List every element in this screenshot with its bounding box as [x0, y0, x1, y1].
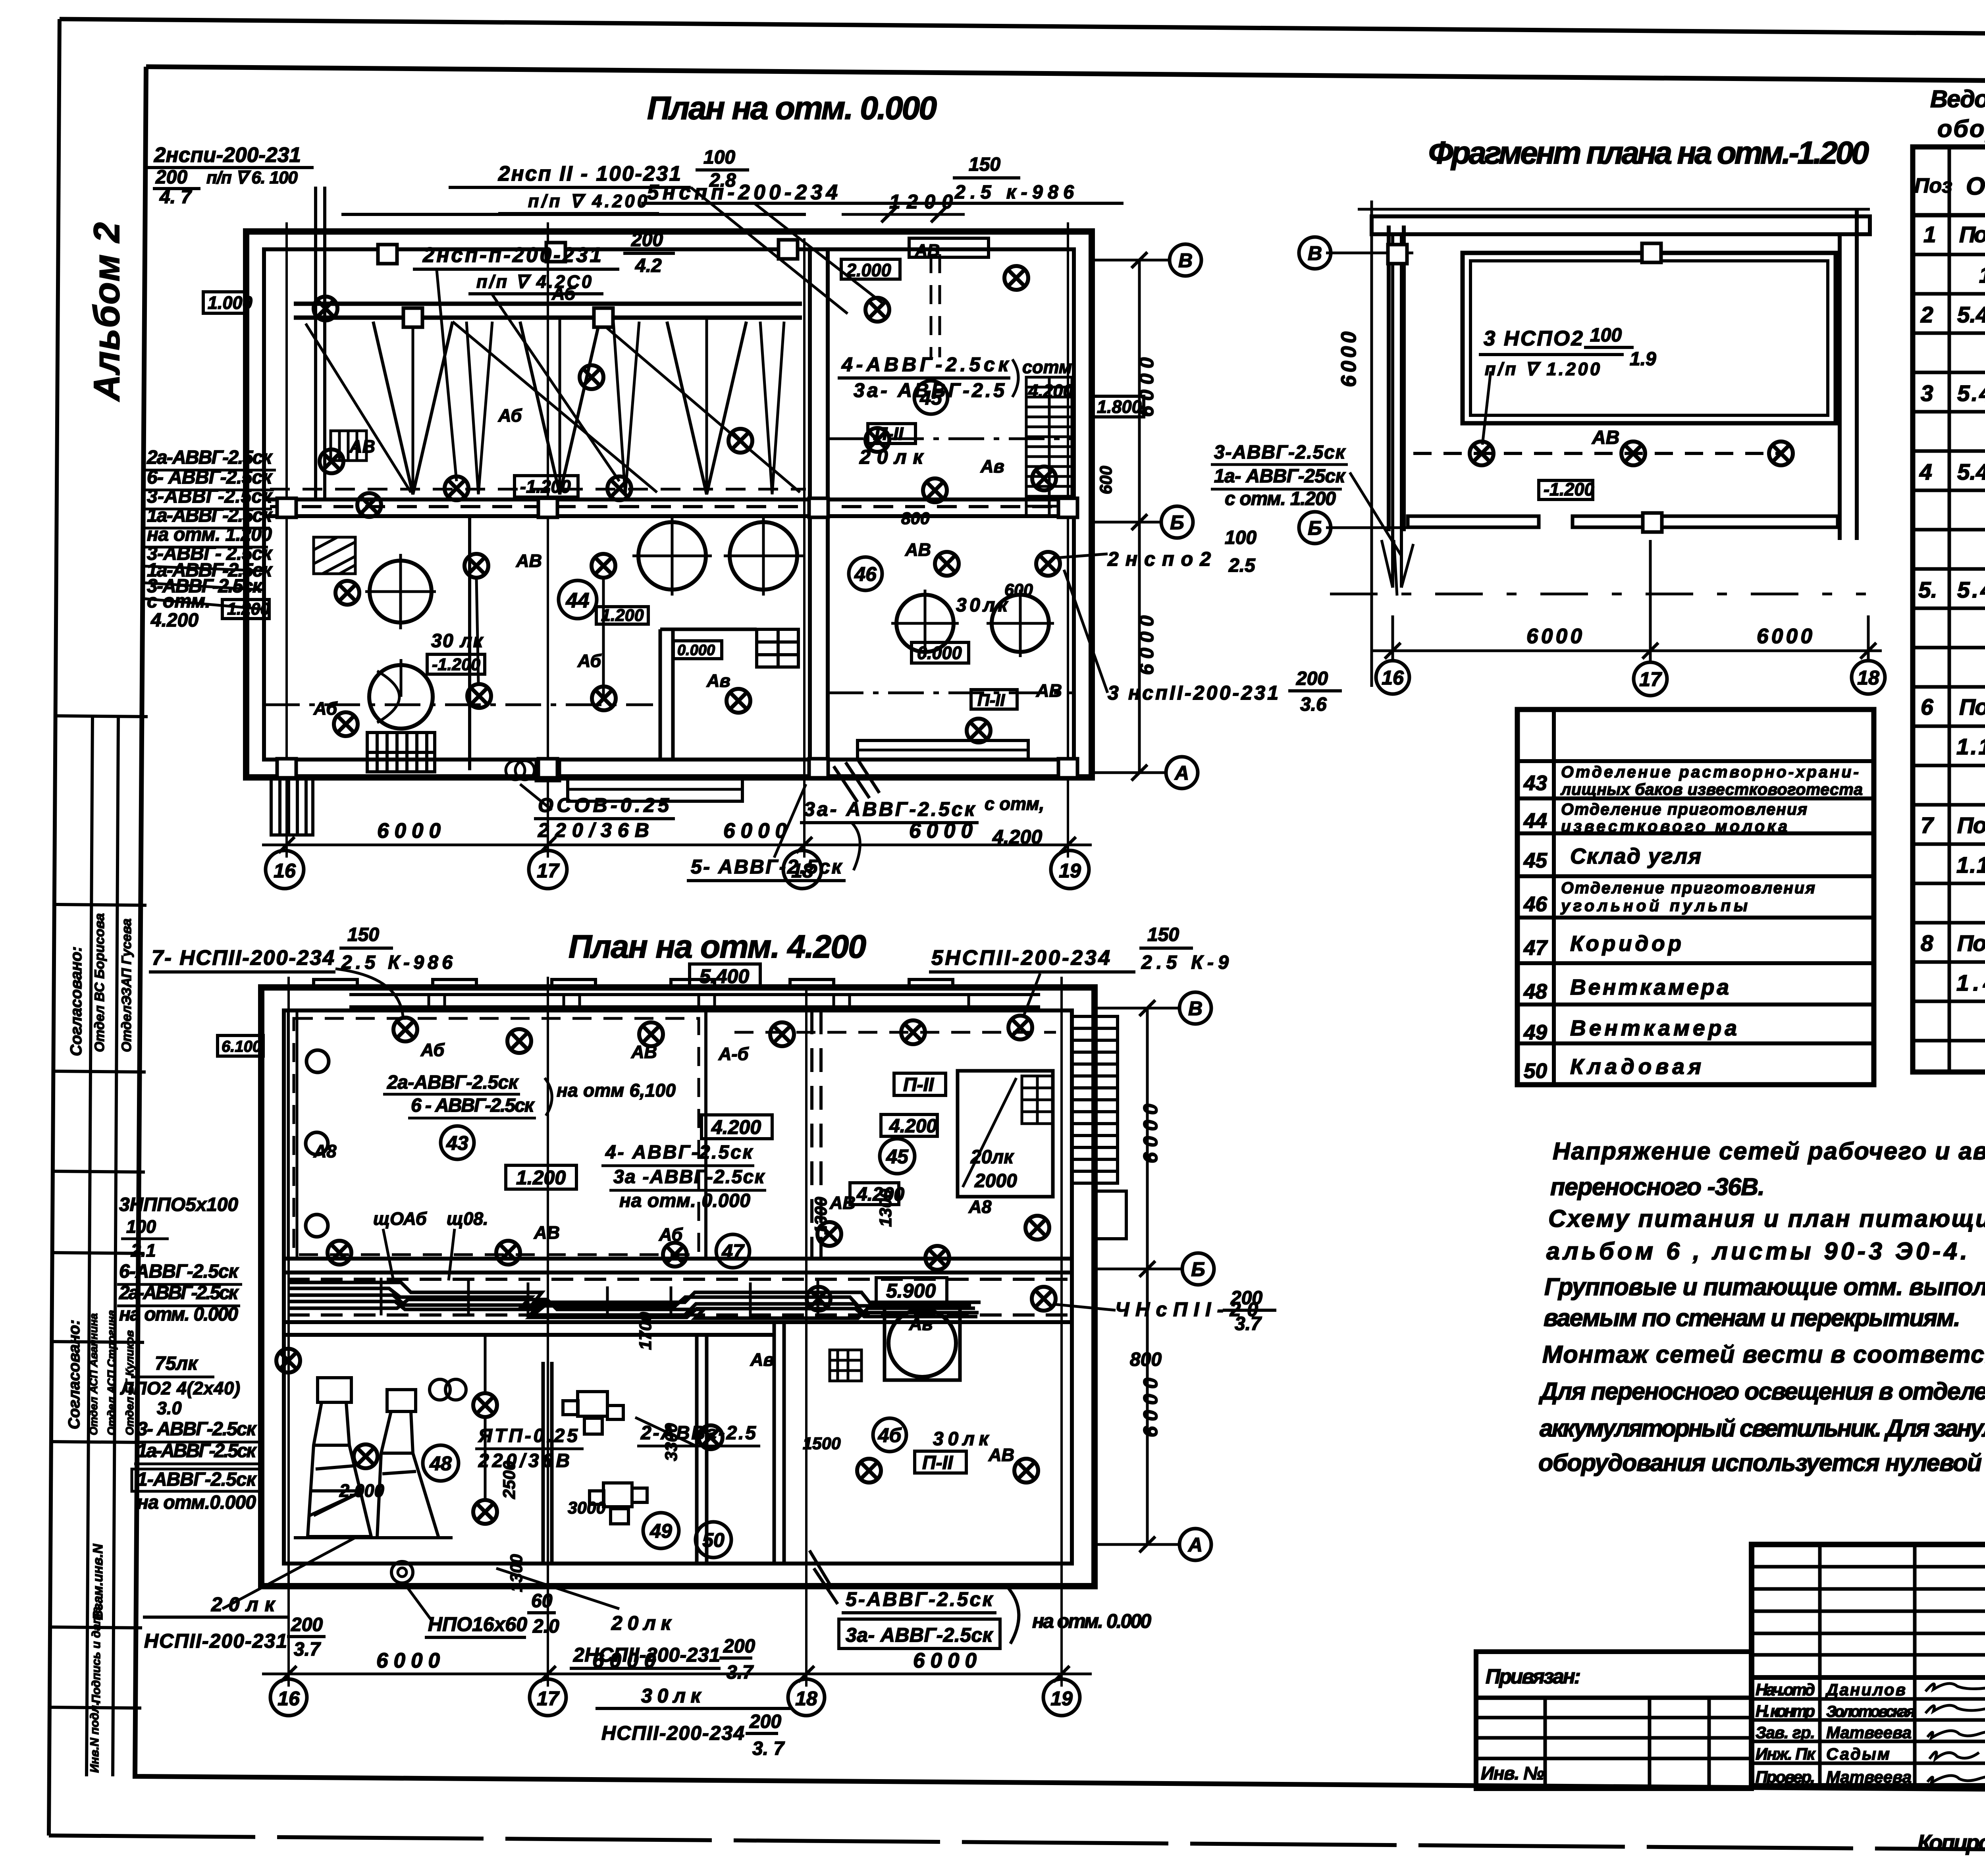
- svg-text:на отм. 1.200: на отм. 1.200: [147, 524, 272, 545]
- svg-text:7- НСПII-200-234: 7- НСПII-200-234: [152, 946, 334, 970]
- cable entry ticks near 18: [834, 759, 879, 802]
- svg-text:4: 4: [1919, 459, 1932, 485]
- svg-text:4.2: 4.2: [635, 255, 662, 276]
- axis circle A: [1166, 757, 1198, 789]
- svg-text:План на отм. 4.200: План на отм. 4.200: [569, 929, 866, 965]
- level boxes: [203, 259, 1144, 709]
- svg-text:7: 7: [1921, 813, 1934, 838]
- left riser double vline: [314, 187, 317, 499]
- svg-text:1-АВВГ-2.5ск: 1-АВВГ-2.5ск: [137, 1469, 257, 1490]
- lamp: [464, 554, 488, 578]
- tank big 1: [370, 561, 432, 623]
- svg-text:Б: Б: [1170, 511, 1184, 534]
- svg-text:8: 8: [1921, 931, 1933, 956]
- lamp: [925, 1246, 949, 1270]
- svg-text:Привязан:: Привязан:: [1486, 1665, 1581, 1688]
- svg-text:Нач.отд: Нач.отд: [1756, 1680, 1815, 1699]
- left interior riser: [287, 1011, 290, 1258]
- lamp: [901, 1020, 925, 1044]
- lamp: [1036, 552, 1060, 576]
- lamp: [473, 1393, 497, 1417]
- right section wall: [808, 249, 812, 760]
- svg-text:3НППО5х100: 3НППО5х100: [119, 1194, 238, 1215]
- lamp: [663, 1243, 687, 1267]
- svg-text:Ав: Ав: [750, 1350, 774, 1370]
- svg-text:П-II: П-II: [875, 424, 904, 444]
- lamp: [320, 449, 343, 473]
- svg-text:6000: 6000: [377, 819, 441, 843]
- svg-text:6.100: 6.100: [222, 1038, 261, 1055]
- level boxes plan2: [218, 964, 966, 1473]
- svg-text:3300: 3300: [662, 1423, 681, 1461]
- svg-text:Монтаж сетей вести в соотв: Монтаж сетей вести в соответствии со СН …: [1542, 1341, 1985, 1368]
- svg-text:П-II: П-II: [977, 691, 1005, 710]
- svg-text:-1.200: -1.200: [432, 655, 480, 674]
- top wall: [1372, 216, 1870, 234]
- svg-text:5-АВВГ-2.5ск: 5-АВВГ-2.5ск: [846, 1588, 994, 1610]
- svg-text:800: 800: [901, 509, 930, 528]
- svg-text:По типу5.407-91.: По типу5.407-91.: [1957, 931, 1985, 956]
- svg-text:Инв. №: Инв. №: [1481, 1763, 1544, 1783]
- column square: [1388, 245, 1407, 264]
- svg-text:4.200: 4.200: [992, 826, 1042, 848]
- svg-text:4-АВВГ-2.5ск: 4-АВВГ-2.5ск: [841, 353, 1010, 376]
- svg-text:п/п ∇ 4.200: п/п ∇ 4.200: [528, 191, 647, 211]
- right vertical dim line: [1138, 260, 1141, 773]
- svg-text:Ведомость узлов установки э: Ведомость узлов установки электрического: [1930, 85, 1985, 112]
- svg-text:Отделение приготовления: Отделение приготовления: [1561, 879, 1815, 897]
- svg-text:5.: 5.: [1918, 577, 1937, 603]
- svg-text:1.130 М: 1.130 М: [1956, 734, 1985, 760]
- lamp: [473, 1500, 497, 1524]
- left axis vertical: [1370, 201, 1373, 687]
- stamp column verticals: [87, 716, 93, 1776]
- cable riser double line: [1391, 234, 1394, 588]
- svg-text:В: В: [1178, 249, 1193, 272]
- svg-text:Согласовано:: Согласовано:: [66, 1320, 83, 1429]
- top extension line: [1358, 208, 1870, 211]
- svg-text:АВ: АВ: [1036, 681, 1062, 701]
- svg-text:Для переносного освещения в: Для переносного освещения в отделении уг…: [1538, 1378, 1985, 1405]
- svg-text:60: 60: [531, 1591, 553, 1612]
- room table box: [1517, 710, 1874, 1085]
- svg-text:НПО16х60: НПО16х60: [428, 1613, 527, 1635]
- svg-text:1300: 1300: [876, 1189, 895, 1227]
- svg-text:18: 18: [1857, 667, 1879, 689]
- lamp: [1008, 1016, 1032, 1039]
- svg-text:3а- АВВГ-2.5ск: 3а- АВВГ-2.5ск: [804, 798, 976, 820]
- outer walls: [261, 987, 1095, 1586]
- axis B line: [1092, 259, 1169, 262]
- lamp: [496, 1241, 520, 1265]
- svg-text:18: 18: [795, 1687, 817, 1710]
- svg-text:100: 100: [126, 1217, 156, 1237]
- room45 dashed partition: [930, 254, 933, 357]
- row lines: [1913, 253, 1985, 256]
- signature area top grid rows: [1752, 1565, 1985, 1569]
- svg-text:3.7: 3.7: [1235, 1313, 1262, 1334]
- lamp: [770, 1022, 794, 1046]
- axis 6 line: [1092, 521, 1161, 524]
- lamp: [1470, 442, 1494, 465]
- svg-text:19: 19: [1059, 860, 1081, 882]
- svg-text:НСПII-200-234: НСПII-200-234: [601, 1722, 744, 1744]
- svg-text:НСПII-200-231: НСПII-200-231: [144, 1630, 287, 1652]
- lamp run dashed: [1413, 452, 1779, 455]
- svg-text:47: 47: [721, 1240, 745, 1263]
- svg-text:По типу 5.407-91: По типу 5.407-91: [1957, 813, 1985, 838]
- svg-text:6000: 6000: [1139, 1104, 1162, 1163]
- svg-text:6: 6: [1921, 694, 1933, 720]
- svg-text:П-II: П-II: [922, 1452, 954, 1473]
- axis verticals: [287, 977, 290, 1687]
- room46 dashdot: [828, 692, 1074, 694]
- svg-text:3000: 3000: [568, 1498, 606, 1517]
- svg-text:1.200: 1.200: [601, 606, 644, 625]
- svg-text:ЛПО2 4(2х40): ЛПО2 4(2х40): [120, 1378, 240, 1398]
- svg-text:2.5 к-986: 2.5 к-986: [954, 182, 1074, 203]
- svg-text:Коридор: Коридор: [1570, 931, 1681, 956]
- svg-text:сотм: сотм: [1022, 357, 1072, 377]
- svg-text:3- АВВГ-2.5ск: 3- АВВГ-2.5ск: [137, 1419, 257, 1440]
- svg-text:200: 200: [723, 1636, 755, 1657]
- svg-text:1а-АВВГ-2.5ск: 1а-АВВГ-2.5ск: [137, 1440, 257, 1461]
- lamp: [445, 476, 468, 500]
- svg-text:44: 44: [1523, 809, 1547, 833]
- svg-text:6 - АВВГ-2.5ск: 6 - АВВГ-2.5ск: [411, 1095, 535, 1116]
- svg-text:В: В: [1308, 242, 1322, 264]
- svg-text:А: А: [1187, 1534, 1203, 1556]
- svg-text:17: 17: [537, 1687, 560, 1710]
- svg-text:5.407-55.1.80: 5.407-55.1.80: [1957, 381, 1985, 406]
- svg-text:6000: 6000: [1139, 1378, 1162, 1437]
- svg-text:АВ: АВ: [631, 1042, 657, 1062]
- corridor top wall: [284, 1257, 1072, 1261]
- svg-text:4.200: 4.200: [889, 1116, 937, 1137]
- svg-text:3.0: 3.0: [157, 1398, 182, 1418]
- svg-text:48: 48: [1523, 980, 1547, 1003]
- svg-text:1а-АВВГ-2.5ск: 1а-АВВГ-2.5ск: [147, 505, 273, 526]
- svg-text:Отдел АСП Строгина: Отдел АСП Строгина: [105, 1310, 118, 1435]
- svg-text:лищных баков известковоготеста: лищных баков известковоготеста: [1560, 780, 1863, 798]
- svg-text:-1.200: -1.200: [1544, 479, 1594, 499]
- axis circle Б: [1182, 1253, 1214, 1285]
- svg-text:5НСПII-200-234: 5НСПII-200-234: [931, 946, 1110, 970]
- lamp: [334, 712, 358, 736]
- svg-text:1.130 МЧ: 1.130 МЧ: [1956, 852, 1985, 878]
- room circles: [441, 1126, 474, 1159]
- svg-text:46: 46: [854, 563, 877, 585]
- svg-text:3-АВВГ-2.5ск: 3-АВВГ-2.5ск: [147, 486, 273, 507]
- dim line: [1372, 650, 1882, 652]
- svg-text:110М4-02: 110М4-02: [1979, 262, 1985, 288]
- svg-text:-1.200: -1.200: [520, 476, 571, 497]
- svg-text:2а-АВВГ-2.5ск: 2а-АВВГ-2.5ск: [387, 1072, 519, 1093]
- column squares mid wall: [277, 498, 296, 517]
- svg-text:на отм 6,100: на отм 6,100: [557, 1080, 676, 1101]
- column: [809, 759, 828, 778]
- svg-text:3а -АВВГ-2.5ск: 3а -АВВГ-2.5ск: [613, 1166, 765, 1188]
- column square: [1642, 243, 1661, 262]
- outer walls: [246, 231, 1092, 777]
- svg-text:4. 7: 4. 7: [159, 187, 192, 208]
- column: [779, 240, 798, 259]
- svg-text:43: 43: [1523, 771, 1547, 795]
- room circle 46: [849, 557, 882, 590]
- stairs room45: [1026, 377, 1072, 516]
- column: [594, 308, 613, 327]
- leader to wall: [1350, 472, 1401, 556]
- corridor cable dashed: [270, 505, 1072, 508]
- crane rail line: [341, 213, 806, 216]
- privyazan table: [1476, 1652, 1752, 1789]
- room dividers bottom: [542, 1362, 545, 1564]
- lamp chain lines: [476, 578, 603, 699]
- room circle 45: [914, 381, 948, 414]
- svg-text:1500: 1500: [803, 1434, 841, 1453]
- svg-text:48: 48: [429, 1452, 452, 1475]
- svg-text:5.407-91.1.190М4: 5.407-91.1.190М4: [1957, 459, 1985, 485]
- bottom axis dashed: [1330, 593, 1866, 596]
- svg-text:150: 150: [1147, 924, 1179, 945]
- small stair: [1022, 1076, 1053, 1124]
- svg-text:угольной пульпы: угольной пульпы: [1560, 897, 1748, 915]
- svg-text:2.000: 2.000: [846, 260, 891, 280]
- PLAN1: [145, 90, 1342, 889]
- lamp: [727, 689, 750, 713]
- svg-text:Альбом 2: Альбом 2: [87, 222, 127, 402]
- lower wall left segment: [1408, 516, 1539, 527]
- riser arrows: [1382, 540, 1413, 596]
- room43/45 divider: [704, 1010, 707, 1259]
- svg-text:46: 46: [1523, 893, 1547, 916]
- bottom dim line: [262, 844, 1092, 846]
- svg-text:Аб: Аб: [577, 651, 601, 671]
- label fraction bars: [1584, 346, 1634, 349]
- room45 dashdot: [828, 438, 1074, 440]
- svg-text:2.000: 2.000: [339, 1481, 384, 1501]
- room circle 44: [559, 580, 597, 619]
- svg-text:4.200: 4.200: [1028, 381, 1073, 401]
- axis A line: [1092, 771, 1166, 774]
- svg-text:переносного -36В.: переносного -36В.: [1550, 1173, 1765, 1200]
- svg-text:2нспи-200-231: 2нспи-200-231: [154, 143, 301, 167]
- lamp: [1014, 1459, 1038, 1483]
- lamp: [967, 719, 991, 742]
- svg-text:Согласовано:: Согласовано:: [67, 947, 85, 1056]
- svg-text:А: А: [1174, 762, 1189, 784]
- svg-text:Зав. гр.: Зав. гр.: [1756, 1723, 1815, 1742]
- svg-text:Отделение приготовления: Отделение приготовления: [1561, 800, 1807, 818]
- tank mid 1: [638, 522, 706, 590]
- svg-text:1.40М4: 1.40М4: [1956, 970, 1985, 996]
- svg-text:800: 800: [1130, 1349, 1162, 1370]
- svg-text:ОтделЭЗАП Гусева: ОтделЭЗАП Гусева: [119, 918, 134, 1052]
- svg-text:2.0: 2.0: [532, 1616, 559, 1637]
- svg-text:на отм.0.000: на отм.0.000: [137, 1492, 256, 1513]
- svg-text:оборудования используется: оборудования используется нулевой рабочи…: [1538, 1449, 1985, 1476]
- svg-text:1.200: 1.200: [516, 1166, 566, 1189]
- svg-text:АВ: АВ: [905, 540, 931, 560]
- axis lines right: [1095, 1007, 1179, 1010]
- svg-text:6000: 6000: [723, 819, 787, 843]
- grid circle 17: [1634, 662, 1667, 696]
- left small vertical wall: [468, 516, 471, 770]
- svg-text:200: 200: [1230, 1288, 1262, 1309]
- axis circle 6: [1161, 506, 1193, 538]
- svg-text:По типу5.407-91: По типу5.407-91: [1959, 694, 1985, 720]
- svg-text:30лк: 30лк: [641, 1685, 702, 1707]
- svg-text:200: 200: [1296, 668, 1328, 689]
- svg-text:5.400: 5.400: [700, 965, 749, 987]
- NOTES: [1538, 1138, 1985, 1476]
- svg-text:А8: А8: [313, 1141, 337, 1161]
- svg-text:20лк: 20лк: [970, 1147, 1014, 1168]
- svg-text:17: 17: [537, 860, 560, 882]
- svg-text:5.407-77.1.320М4: 5.407-77.1.320М4: [1957, 302, 1985, 328]
- svg-text:47: 47: [1523, 936, 1548, 960]
- svg-text:Аб: Аб: [420, 1040, 445, 1060]
- svg-text:Б: Б: [1191, 1258, 1205, 1280]
- lamp: [639, 1022, 663, 1046]
- svg-text:аккумуляторный светильник. Д: аккумуляторный светильник. Для зануления…: [1540, 1415, 1985, 1442]
- svg-text:Венткамера: Венткамера: [1570, 1016, 1737, 1040]
- tank mid 2: [730, 522, 797, 590]
- lamp: [923, 478, 947, 502]
- svg-text:с отм.: с отм.: [147, 591, 210, 612]
- svg-text:2а-АВВГ-2.5ск: 2а-АВВГ-2.5ск: [119, 1282, 239, 1303]
- top right 1200 dim: [842, 213, 965, 216]
- right protrusion box room46: [858, 740, 1028, 760]
- lamp: [335, 581, 359, 605]
- svg-text:30лк: 30лк: [956, 595, 1009, 616]
- svg-text:600: 600: [1004, 580, 1033, 600]
- grid circles: [270, 1679, 307, 1716]
- lamp: [357, 493, 381, 517]
- svg-text:АВ: АВ: [534, 1222, 560, 1243]
- svg-text:П-II: П-II: [903, 1074, 935, 1095]
- axis verticals: [285, 222, 288, 858]
- lamp: [857, 1459, 881, 1483]
- ROOMS TABLE: [1517, 710, 1874, 1085]
- bottom protrusion box: [568, 777, 742, 801]
- svg-text:2нсп-п-200-231: 2нсп-п-200-231: [422, 243, 601, 267]
- svg-text:ЯТП-0.25: ЯТП-0.25: [478, 1425, 578, 1446]
- svg-text:оборудования на плане распо: оборудования на плане расположения.: [1937, 115, 1985, 142]
- stamp column dividers: [57, 716, 148, 717]
- lamps plan1: [314, 297, 337, 320]
- column square: [1643, 513, 1662, 532]
- svg-text:20лк: 20лк: [859, 446, 924, 468]
- svg-text:6000: 6000: [1526, 625, 1582, 648]
- equip room48 small: [430, 1379, 466, 1400]
- svg-text:75лк: 75лк: [155, 1353, 198, 1374]
- svg-text:1а- АВВГ-25ск: 1а- АВВГ-25ск: [1214, 466, 1346, 487]
- svg-text:В: В: [1188, 997, 1203, 1020]
- truss diagonals: [373, 322, 453, 494]
- column squares top wall: [378, 245, 397, 264]
- svg-text:Аб: Аб: [313, 698, 337, 719]
- stairs bottom-left: [367, 733, 435, 772]
- svg-text:6000: 6000: [913, 1649, 977, 1672]
- lamp: [807, 1287, 831, 1311]
- svg-text:Фрагмент плана на отм.-1.200: Фрагмент плана на отм.-1.200: [1428, 135, 1869, 170]
- left wall: [1387, 226, 1391, 531]
- axis circle B: [1179, 992, 1211, 1024]
- svg-text:Матвеева: Матвеева: [1826, 1768, 1912, 1786]
- svg-text:200: 200: [155, 167, 187, 188]
- svg-text:п/п ∇ 6. 100: п/п ∇ 6. 100: [206, 168, 298, 187]
- svg-text:Данилов: Данилов: [1825, 1680, 1906, 1699]
- svg-text:0.000: 0.000: [917, 643, 962, 663]
- column lines: [1948, 147, 1951, 1072]
- right small annex: [1095, 1191, 1126, 1239]
- column: [1058, 498, 1077, 517]
- svg-text:4б: 4б: [878, 1424, 902, 1446]
- svg-text:Кладовая: Кладовая: [1570, 1054, 1701, 1079]
- lamp: [728, 429, 752, 453]
- svg-text:3: 3: [1921, 381, 1933, 406]
- transformer symbol: [506, 761, 525, 780]
- svg-text:2-АВВг-2.5: 2-АВВг-2.5: [640, 1423, 756, 1444]
- mid-left vertical wall: [659, 629, 662, 760]
- column squares bottom wall: [277, 759, 296, 778]
- svg-text:200: 200: [631, 229, 663, 251]
- svg-text:45: 45: [1523, 849, 1548, 872]
- svg-text:альбом 6 , листы 9: альбом 6 , листы 90-3 Э0-4.: [1546, 1238, 1967, 1265]
- truss beam: [294, 302, 802, 306]
- lamp: [1032, 1287, 1056, 1311]
- svg-text:2.5 К-9: 2.5 К-9: [1141, 952, 1229, 973]
- svg-text:Ав: Ав: [909, 1314, 933, 1334]
- svg-text:1300: 1300: [811, 1197, 831, 1235]
- svg-text:4.200: 4.200: [150, 610, 198, 631]
- svg-text:100: 100: [1590, 325, 1622, 346]
- machines room49: [563, 1392, 647, 1524]
- svg-text:4- АВВГ-2.5ск: 4- АВВГ-2.5ск: [605, 1142, 754, 1163]
- svg-text:1.9: 1.9: [1630, 349, 1656, 370]
- svg-text:220/36В: 220/36В: [478, 1450, 570, 1471]
- svg-text:По типу 5.407-64.: По типу 5.407-64.: [1959, 222, 1985, 247]
- svg-text:Венткамера: Венткамера: [1570, 975, 1729, 999]
- svg-text:20лк: 20лк: [611, 1612, 672, 1634]
- header underline: [1913, 213, 1985, 218]
- lamp: [354, 1444, 378, 1468]
- wall pilasters top: [314, 979, 953, 987]
- svg-text:3.7: 3.7: [727, 1662, 754, 1683]
- svg-text:49: 49: [1523, 1021, 1547, 1044]
- svg-text:100: 100: [1225, 527, 1257, 548]
- svg-text:6000: 6000: [1757, 625, 1812, 648]
- svg-text:0.000: 0.000: [677, 642, 715, 659]
- TITLEBLOCK: [1476, 1544, 1985, 1856]
- svg-text:АВ: АВ: [915, 241, 940, 260]
- svg-text:Аб: Аб: [498, 405, 522, 426]
- svg-text:3-АВВГ-2.5ск: 3-АВВГ-2.5ск: [1214, 442, 1346, 463]
- svg-text:2.5: 2.5: [1228, 555, 1256, 576]
- svg-text:щ08.: щ08.: [447, 1209, 488, 1229]
- svg-text:2: 2: [1920, 302, 1933, 328]
- inner drawing frame: [146, 67, 1985, 85]
- fan unit room46: [885, 1306, 960, 1380]
- svg-text:Аб: Аб: [659, 1224, 683, 1245]
- svg-text:16: 16: [278, 1687, 300, 1710]
- room45 dashed: [734, 1031, 1056, 1034]
- svg-text:43: 43: [446, 1132, 468, 1154]
- truss bottom dashed: [270, 488, 806, 491]
- svg-text:30лк: 30лк: [933, 1429, 990, 1450]
- svg-text:5- АВВГ-2.5ск: 5- АВВГ-2.5ск: [691, 856, 843, 878]
